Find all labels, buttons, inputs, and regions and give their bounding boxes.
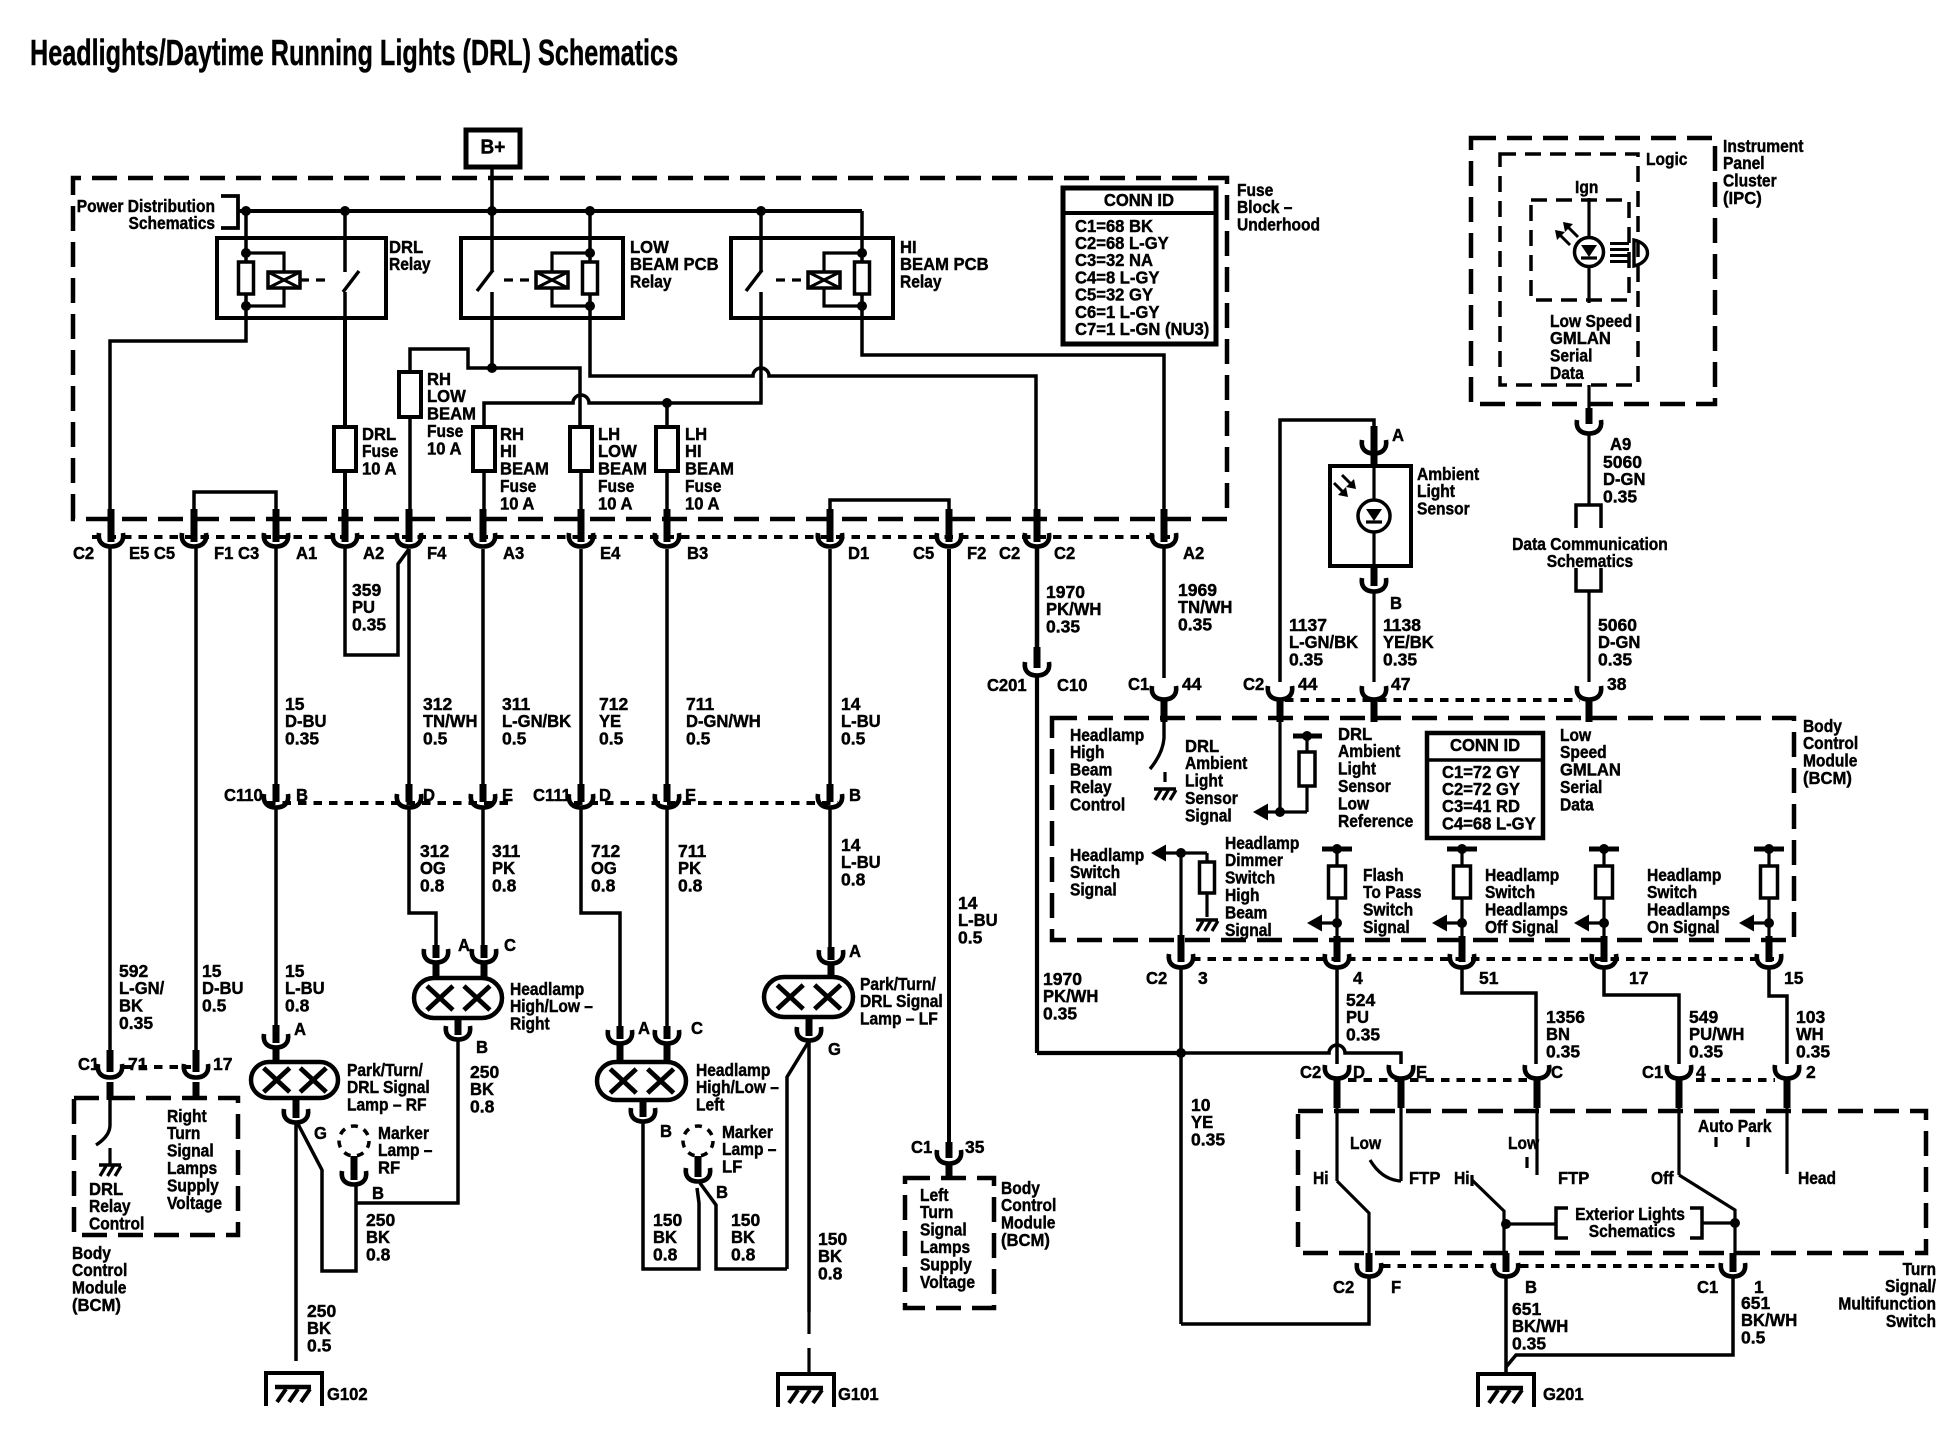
svg-text:47: 47	[1391, 674, 1410, 694]
svg-text:C2: C2	[1054, 543, 1075, 562]
svg-text:0.8: 0.8	[492, 876, 517, 896]
svg-text:Voltage: Voltage	[920, 1272, 975, 1292]
svg-text:A: A	[638, 1018, 650, 1037]
svg-text:Schematics: Schematics	[1547, 551, 1633, 571]
svg-text:Signal: Signal	[1363, 917, 1410, 937]
svg-text:E5 C5: E5 C5	[129, 543, 175, 562]
svg-text:0.35: 0.35	[1178, 615, 1212, 635]
svg-text:C2: C2	[1243, 674, 1264, 693]
svg-text:Left: Left	[696, 1095, 725, 1115]
svg-text:E: E	[1416, 1062, 1427, 1081]
svg-text:Hi: Hi	[1454, 1168, 1470, 1188]
svg-text:B+: B+	[481, 136, 506, 159]
svg-text:Lamp – LF: Lamp – LF	[860, 1009, 938, 1029]
svg-text:651: 651	[1512, 1299, 1541, 1319]
svg-text:C2: C2	[1146, 968, 1167, 987]
svg-text:B: B	[1390, 593, 1402, 612]
svg-text:C: C	[504, 935, 516, 954]
svg-text:Relay: Relay	[630, 272, 672, 292]
svg-text:C1: C1	[911, 1137, 932, 1156]
svg-text:Auto Park: Auto Park	[1698, 1116, 1772, 1136]
svg-text:A1: A1	[296, 543, 317, 562]
svg-text:F4: F4	[427, 543, 447, 562]
svg-text:1138: 1138	[1383, 615, 1421, 635]
svg-text:0.5: 0.5	[502, 729, 527, 749]
svg-text:C: C	[1551, 1062, 1563, 1081]
svg-text:1356: 1356	[1546, 1007, 1585, 1027]
svg-text:1137: 1137	[1289, 615, 1327, 635]
svg-text:C2: C2	[1333, 1277, 1354, 1296]
svg-text:A2: A2	[363, 543, 384, 562]
svg-text:A2: A2	[1183, 543, 1204, 562]
svg-text:C1: C1	[78, 1054, 99, 1073]
svg-text:0.8: 0.8	[591, 876, 616, 896]
svg-text:0.5: 0.5	[423, 729, 448, 749]
svg-text:A3: A3	[503, 543, 524, 562]
svg-text:C1: C1	[1128, 674, 1149, 693]
svg-text:F1 C3: F1 C3	[214, 543, 259, 562]
svg-text:711: 711	[678, 841, 706, 861]
svg-text:0.35: 0.35	[1512, 1334, 1546, 1354]
svg-text:5060: 5060	[1598, 615, 1637, 635]
svg-text:Hi: Hi	[1313, 1168, 1329, 1188]
svg-text:D: D	[1353, 1062, 1365, 1081]
svg-text:0.35: 0.35	[1796, 1042, 1830, 1062]
svg-text:10 A: 10 A	[362, 459, 396, 478]
svg-text:C1: C1	[1642, 1062, 1663, 1081]
svg-text:C7=1 L-GN (NU3): C7=1 L-GN (NU3)	[1075, 320, 1209, 339]
svg-text:Right: Right	[510, 1014, 550, 1034]
svg-text:Headlights/Daytime Running Lig: Headlights/Daytime Running Lights (DRL) …	[30, 32, 678, 73]
svg-text:F2: F2	[967, 543, 986, 562]
svg-text:Relay: Relay	[900, 272, 942, 292]
svg-text:0.5: 0.5	[1741, 1328, 1766, 1348]
svg-text:359: 359	[352, 580, 381, 600]
svg-text:10 A: 10 A	[427, 439, 461, 458]
svg-text:38: 38	[1607, 674, 1627, 694]
svg-text:0.35: 0.35	[1346, 1025, 1380, 1045]
svg-text:17: 17	[1629, 968, 1648, 988]
svg-text:Head: Head	[1798, 1168, 1836, 1188]
svg-text:1969: 1969	[1178, 580, 1217, 600]
svg-text:15: 15	[202, 961, 222, 981]
svg-text:51: 51	[1479, 968, 1499, 988]
svg-text:Signal: Signal	[1225, 920, 1272, 940]
svg-text:4: 4	[1696, 1062, 1706, 1082]
svg-text:150: 150	[818, 1229, 847, 1249]
svg-text:C111: C111	[533, 785, 571, 804]
svg-text:CONN ID: CONN ID	[1104, 190, 1174, 209]
svg-text:0.35: 0.35	[1598, 650, 1632, 670]
svg-text:592: 592	[119, 961, 148, 981]
svg-text:Schematics: Schematics	[1589, 1221, 1675, 1241]
svg-text:35: 35	[965, 1137, 985, 1157]
svg-text:C10: C10	[1057, 675, 1087, 694]
svg-text:Low: Low	[1350, 1133, 1381, 1153]
svg-text:A: A	[1392, 425, 1404, 444]
svg-text:C2: C2	[73, 543, 94, 562]
svg-text:0.5: 0.5	[599, 729, 624, 749]
svg-text:3: 3	[1198, 968, 1208, 988]
svg-text:Underhood: Underhood	[1237, 215, 1320, 235]
svg-text:10 A: 10 A	[500, 494, 534, 513]
svg-text:Voltage: Voltage	[167, 1193, 222, 1213]
svg-text:A: A	[849, 941, 861, 960]
svg-text:Data: Data	[1550, 363, 1584, 383]
svg-text:C1: C1	[1697, 1277, 1718, 1296]
svg-text:B: B	[716, 1182, 728, 1201]
svg-text:549: 549	[1689, 1007, 1718, 1027]
svg-text:651: 651	[1741, 1293, 1770, 1313]
svg-text:1970: 1970	[1046, 582, 1085, 602]
svg-text:10 A: 10 A	[598, 494, 632, 513]
svg-text:711: 711	[686, 694, 714, 714]
svg-text:15: 15	[285, 694, 305, 714]
svg-text:D: D	[599, 785, 611, 804]
svg-text:On Signal: On Signal	[1647, 917, 1720, 937]
svg-text:0.8: 0.8	[841, 870, 866, 890]
svg-text:14: 14	[958, 893, 978, 913]
svg-text:15: 15	[285, 961, 305, 981]
svg-text:FTP: FTP	[1558, 1168, 1589, 1187]
svg-text:LF: LF	[722, 1157, 742, 1176]
svg-text:0.5: 0.5	[307, 1336, 332, 1356]
svg-text:C4=68 L-GY: C4=68 L-GY	[1442, 814, 1536, 833]
svg-text:250: 250	[470, 1062, 499, 1082]
svg-text:0.8: 0.8	[470, 1097, 495, 1117]
svg-text:A: A	[458, 935, 470, 954]
svg-text:0.35: 0.35	[1383, 650, 1417, 670]
svg-text:Logic: Logic	[1646, 149, 1687, 169]
svg-text:15: 15	[1784, 968, 1804, 988]
svg-text:4: 4	[1353, 968, 1363, 988]
svg-text:E: E	[685, 785, 696, 804]
svg-text:0.8: 0.8	[366, 1245, 391, 1265]
svg-text:F: F	[1391, 1277, 1401, 1296]
svg-text:0.35: 0.35	[1046, 617, 1080, 637]
svg-text:C5: C5	[913, 543, 934, 562]
svg-text:B: B	[372, 1183, 384, 1202]
svg-text:C: C	[691, 1018, 703, 1037]
svg-text:Off Signal: Off Signal	[1485, 917, 1558, 937]
svg-text:Ign: Ign	[1575, 177, 1598, 197]
svg-text:10 A: 10 A	[685, 494, 719, 513]
svg-text:0.35: 0.35	[119, 1013, 153, 1033]
svg-text:Off: Off	[1651, 1168, 1674, 1188]
svg-text:312: 312	[423, 694, 452, 714]
svg-text:524: 524	[1346, 990, 1375, 1010]
svg-text:0.35: 0.35	[1689, 1042, 1723, 1062]
svg-text:103: 103	[1796, 1007, 1825, 1027]
svg-text:250: 250	[366, 1210, 395, 1230]
svg-text:0.8: 0.8	[818, 1264, 843, 1284]
svg-text:B: B	[660, 1121, 672, 1140]
svg-text:712: 712	[599, 694, 628, 714]
svg-text:G201: G201	[1543, 1384, 1584, 1403]
svg-text:Sensor: Sensor	[1417, 499, 1470, 519]
svg-text:0.8: 0.8	[420, 876, 445, 896]
svg-text:RF: RF	[378, 1158, 400, 1177]
svg-text:0.35: 0.35	[1289, 650, 1323, 670]
svg-text:Data: Data	[1560, 795, 1594, 815]
svg-text:E4: E4	[600, 543, 621, 562]
svg-text:150: 150	[653, 1210, 682, 1230]
svg-text:0.8: 0.8	[678, 876, 703, 896]
svg-text:Low: Low	[1508, 1133, 1539, 1153]
svg-text:0.8: 0.8	[653, 1245, 678, 1265]
svg-text:150: 150	[731, 1210, 760, 1230]
svg-text:C2: C2	[999, 543, 1020, 562]
svg-text:G101: G101	[838, 1384, 879, 1403]
svg-text:D1: D1	[848, 543, 869, 562]
svg-text:14: 14	[841, 835, 861, 855]
svg-text:C201: C201	[987, 675, 1027, 694]
svg-text:1970: 1970	[1043, 969, 1082, 989]
svg-text:B3: B3	[687, 543, 708, 562]
svg-text:Control: Control	[89, 1214, 144, 1234]
svg-text:(BCM): (BCM)	[1001, 1231, 1050, 1250]
svg-text:Control: Control	[1070, 795, 1125, 815]
svg-text:0.8: 0.8	[731, 1245, 756, 1265]
svg-text:0.5: 0.5	[958, 928, 983, 948]
svg-text:Schematics: Schematics	[129, 213, 215, 233]
svg-text:14: 14	[841, 694, 861, 714]
svg-text:C110: C110	[224, 785, 263, 804]
svg-text:Signal: Signal	[1070, 880, 1117, 900]
svg-text:G: G	[314, 1123, 327, 1142]
svg-text:A: A	[294, 1019, 306, 1038]
svg-text:CONN ID: CONN ID	[1450, 735, 1520, 754]
svg-text:71: 71	[128, 1054, 148, 1074]
svg-text:Lamp – RF: Lamp – RF	[347, 1095, 427, 1115]
svg-text:0.5: 0.5	[841, 729, 866, 749]
svg-text:B: B	[476, 1037, 488, 1056]
svg-text:5060: 5060	[1603, 452, 1642, 472]
svg-text:0.35: 0.35	[1546, 1042, 1580, 1062]
svg-text:(BCM): (BCM)	[1803, 769, 1852, 788]
svg-text:0.35: 0.35	[1043, 1004, 1077, 1024]
svg-text:B: B	[849, 785, 861, 804]
svg-text:312: 312	[420, 841, 449, 861]
svg-text:0.35: 0.35	[1191, 1130, 1225, 1150]
svg-text:E: E	[502, 785, 513, 804]
svg-text:D: D	[423, 785, 435, 804]
svg-text:0.5: 0.5	[202, 996, 227, 1016]
svg-text:2: 2	[1806, 1062, 1816, 1082]
svg-text:712: 712	[591, 841, 620, 861]
svg-text:(BCM): (BCM)	[72, 1296, 121, 1315]
svg-text:0.35: 0.35	[352, 615, 386, 635]
svg-text:311: 311	[492, 841, 520, 861]
svg-text:B: B	[296, 785, 308, 804]
svg-text:44: 44	[1298, 674, 1318, 694]
svg-text:250: 250	[307, 1301, 336, 1321]
svg-text:0.35: 0.35	[285, 729, 319, 749]
svg-text:17: 17	[213, 1054, 232, 1074]
svg-text:Switch: Switch	[1886, 1311, 1936, 1331]
svg-text:(IPC): (IPC)	[1723, 189, 1762, 208]
svg-text:FTP: FTP	[1409, 1168, 1440, 1187]
svg-text:44: 44	[1182, 674, 1202, 694]
svg-text:0.5: 0.5	[686, 729, 711, 749]
svg-text:Signal: Signal	[1185, 806, 1232, 826]
svg-text:G102: G102	[327, 1384, 368, 1403]
svg-text:Relay: Relay	[389, 254, 431, 274]
svg-text:Reference: Reference	[1338, 811, 1413, 831]
svg-text:311: 311	[502, 694, 530, 714]
svg-text:0.35: 0.35	[1603, 487, 1637, 507]
svg-text:G: G	[828, 1039, 841, 1058]
svg-text:B: B	[1525, 1277, 1537, 1296]
svg-text:10: 10	[1191, 1095, 1211, 1115]
svg-text:0.8: 0.8	[285, 996, 310, 1016]
svg-text:C2: C2	[1300, 1062, 1321, 1081]
